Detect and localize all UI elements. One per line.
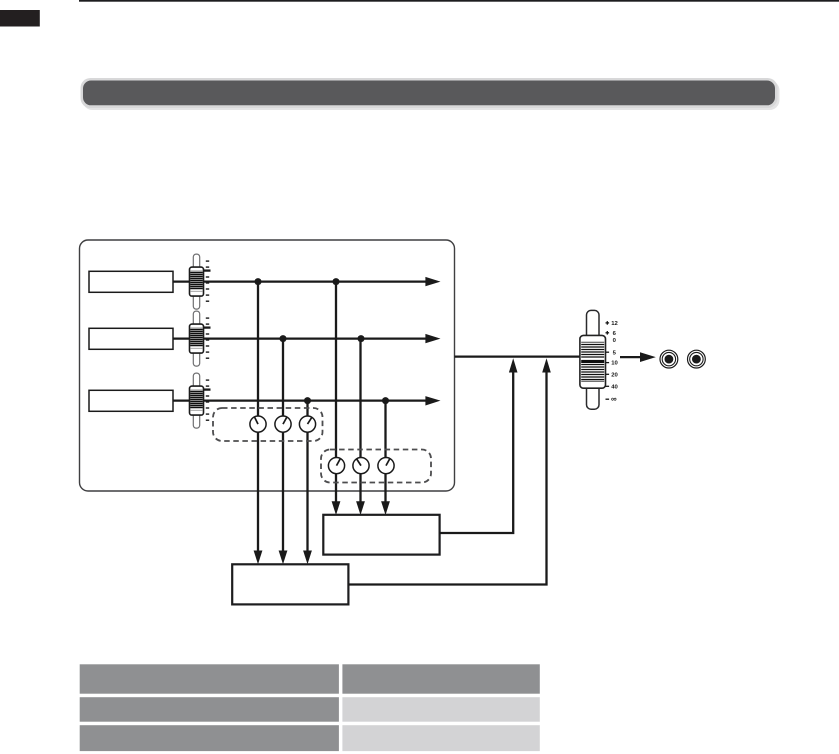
wire: tap ch2 to send knob 2	[359, 339, 361, 503]
wire: effect box return to mix	[348, 371, 546, 585]
mixer block outline	[80, 240, 455, 491]
wire: channel 2 bus	[173, 337, 427, 339]
arrowhead into upper box	[381, 501, 390, 515]
knob level ch1	[250, 416, 266, 432]
section header bar shadow	[83, 81, 780, 111]
wire: master fader to output	[620, 356, 642, 358]
channel 2 label box	[89, 328, 173, 349]
svg-text:0: 0	[613, 338, 617, 344]
table row 3 right	[342, 725, 539, 751]
svg-text:20: 20	[611, 372, 618, 378]
wire: tap ch3 to effect knob 3	[306, 401, 308, 552]
junction dot ch1/knob1	[255, 278, 262, 285]
svg-text:6: 6	[613, 331, 617, 337]
junction dot ch2/send2	[358, 335, 365, 342]
fader channel 2 scale ticks	[204, 318, 211, 358]
output jack R	[688, 350, 706, 368]
arrowhead return 1	[509, 358, 518, 372]
master fader scale labels	[606, 321, 619, 404]
svg-text:40: 40	[611, 384, 618, 390]
junction dot ch1/send1	[333, 278, 340, 285]
wire: tap ch1 to send knob 1	[335, 282, 337, 503]
section header bar outer	[81, 78, 778, 108]
effect box (lower-left process box)	[232, 564, 348, 604]
table header row left	[80, 664, 339, 693]
arrowhead into lower box	[254, 551, 263, 565]
fader channel 3 scale ticks	[204, 380, 211, 420]
arrowhead channel 2 bus	[425, 334, 440, 343]
knob send ch2	[353, 458, 369, 474]
channel 1 label box	[89, 271, 173, 292]
dashed group box 1	[213, 408, 323, 441]
table row 2 right	[342, 697, 539, 722]
wire: mix bus to master fader	[455, 355, 581, 357]
table row 2 left	[80, 697, 339, 722]
arrowhead output	[640, 352, 656, 362]
wire: channel 1 bus	[173, 280, 427, 282]
output jack L	[660, 350, 678, 368]
top rule	[79, 0, 839, 2]
wire: tap ch2 to effect knob 2	[282, 339, 284, 552]
section header bar inner	[83, 81, 775, 106]
arrowhead channel 3 bus	[425, 396, 440, 405]
junction dot ch3/knob3	[304, 397, 311, 404]
junction dot ch2/knob2	[280, 335, 287, 342]
master fader	[580, 310, 606, 409]
knob send ch1	[328, 458, 344, 474]
arrowhead into lower box	[303, 551, 312, 565]
fader channel 1	[190, 254, 204, 309]
wire: tap ch3 to send knob 3	[384, 401, 386, 503]
page tab (top-left black block)	[0, 10, 40, 27]
svg-text:12: 12	[611, 321, 618, 327]
wire: send box return to mix	[440, 371, 514, 534]
knob send ch3	[378, 458, 394, 474]
table row 3 left	[80, 725, 339, 751]
arrowhead into upper box	[356, 501, 365, 515]
fader channel 2	[190, 311, 204, 366]
svg-text:10: 10	[611, 361, 618, 367]
wire: tap ch1 to effect knob 1	[257, 282, 259, 552]
send box (upper-right process box)	[323, 515, 439, 555]
dashed group box 2	[321, 450, 431, 483]
knob level ch3	[299, 416, 315, 432]
table header row right	[342, 664, 539, 693]
arrowhead into upper box	[332, 501, 341, 515]
arrowhead channel 1 bus	[425, 277, 440, 286]
arrowhead into lower box	[279, 551, 288, 565]
channel 3 label box	[89, 390, 173, 411]
svg-text:∞: ∞	[611, 395, 617, 404]
junction dot ch3/send3	[382, 397, 389, 404]
fader channel 3	[190, 373, 204, 428]
wire: channel 3 bus	[173, 399, 427, 401]
knob level ch2	[275, 416, 291, 432]
fader channel 1 scale ticks	[204, 261, 211, 301]
arrowhead return 2	[542, 358, 551, 372]
svg-text:5: 5	[613, 350, 617, 356]
